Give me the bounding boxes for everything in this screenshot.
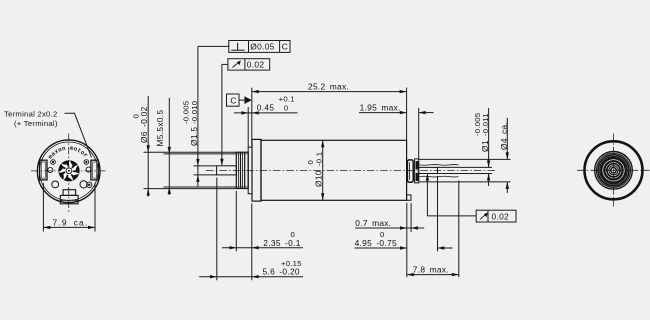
svg-text:0: 0 [380, 230, 385, 239]
front view left terminal block [40, 160, 47, 180]
dim 25.2 max. [252, 82, 407, 148]
svg-text:Ø10: Ø10 [313, 170, 323, 187]
side view threaded collar M5.5 [236, 152, 248, 188]
front view outer housing circle [37, 140, 100, 203]
svg-text:4.95 -0.75: 4.95 -0.75 [355, 238, 397, 248]
side view rear shaft [419, 167, 438, 173]
front view pin holes [48, 167, 53, 172]
svg-text:-0.010: -0.010 [190, 101, 199, 124]
dim Ø1.5 with tolerance [182, 46, 217, 186]
svg-text:Ø6 -0.02: Ø6 -0.02 [139, 106, 149, 143]
rear view centerlines [577, 169, 650, 171]
svg-text:M5.5x0.5: M5.5x0.5 [155, 110, 165, 147]
svg-text:7.9 ca.: 7.9 ca. [53, 217, 89, 227]
svg-text:Ø0.05: Ø0.05 [250, 42, 274, 52]
datum C [227, 94, 252, 106]
dim 1.95 max. [359, 103, 434, 159]
svg-text:+0.15: +0.15 [281, 259, 302, 268]
feature frame runout 0.02 rear [426, 174, 516, 222]
side view rear bottom tab [407, 195, 411, 200]
front view maxon motor arc text [47, 145, 90, 161]
svg-text:(+ Terminal): (+ Terminal) [14, 119, 58, 128]
ext lines rear shaft Ø1 [438, 166, 493, 168]
dim 5.6 [199, 178, 303, 281]
svg-text:0: 0 [291, 230, 296, 239]
front view upper screws [51, 160, 56, 165]
dim Ø4 ca. [499, 118, 509, 193]
svg-text:0: 0 [284, 104, 289, 113]
rear view bearing rings [595, 152, 633, 190]
dim M5.5x0.5 [155, 98, 237, 195]
svg-text:0: 0 [132, 114, 141, 119]
dim 4.95 [355, 176, 453, 251]
front view centerlines [31, 170, 107, 172]
side view centerline [206, 169, 497, 171]
svg-text:+0.1: +0.1 [279, 95, 295, 104]
side view phantom pinion outline [420, 165, 459, 177]
side view washer [248, 147, 252, 194]
front view right terminal block [91, 160, 98, 180]
dim 0.45 [234, 95, 298, 148]
svg-text:Ø4 ca.: Ø4 ca. [499, 122, 509, 150]
side view rear cap ring [415, 159, 419, 183]
svg-text:0.02: 0.02 [492, 211, 510, 221]
side view rear bearing boss [407, 160, 413, 182]
svg-text:-0.011: -0.011 [481, 113, 490, 136]
svg-text:-0.1: -0.1 [314, 152, 323, 166]
dim 0.7 max. [355, 203, 424, 277]
front view motor hub with fan [58, 160, 80, 182]
feature frame runout 0.02 front [220, 59, 269, 166]
front view bottom tab [60, 190, 78, 204]
svg-text:Ø1.5: Ø1.5 [189, 127, 199, 146]
dim Ø1 with tolerance [473, 108, 491, 186]
side view front flange [252, 139, 261, 201]
svg-text:25.2 max.: 25.2 max. [308, 82, 349, 92]
front view lower holes [52, 181, 59, 188]
dim Ø6 [132, 96, 237, 197]
terminal leader line [65, 113, 92, 157]
svg-text:0.45: 0.45 [257, 103, 275, 113]
svg-text:2.35 -0.1: 2.35 -0.1 [263, 238, 300, 248]
side view front shaft [217, 166, 237, 175]
side view motor body [261, 140, 407, 200]
svg-text:Terminal 2x0.2: Terminal 2x0.2 [4, 110, 58, 119]
svg-text:0.02: 0.02 [247, 59, 265, 69]
dim 7.9 ca. [43, 183, 95, 232]
dim 7.8 max. [407, 181, 459, 278]
dim Ø10 [306, 140, 324, 200]
rear view outer circle [585, 141, 643, 199]
svg-text:Ø1: Ø1 [480, 140, 490, 152]
svg-text:0.7 max.: 0.7 max. [355, 218, 391, 228]
svg-text:1.95 max.: 1.95 max. [360, 103, 401, 113]
ext lines rear boss Ø4 [419, 158, 511, 160]
svg-text:C: C [230, 95, 236, 105]
svg-text:7.8 max.: 7.8 max. [413, 264, 449, 274]
svg-text:C: C [282, 42, 288, 52]
dim 2.35 [222, 191, 303, 251]
feature frame perpendicularity Ø0.05 C [198, 41, 290, 53]
